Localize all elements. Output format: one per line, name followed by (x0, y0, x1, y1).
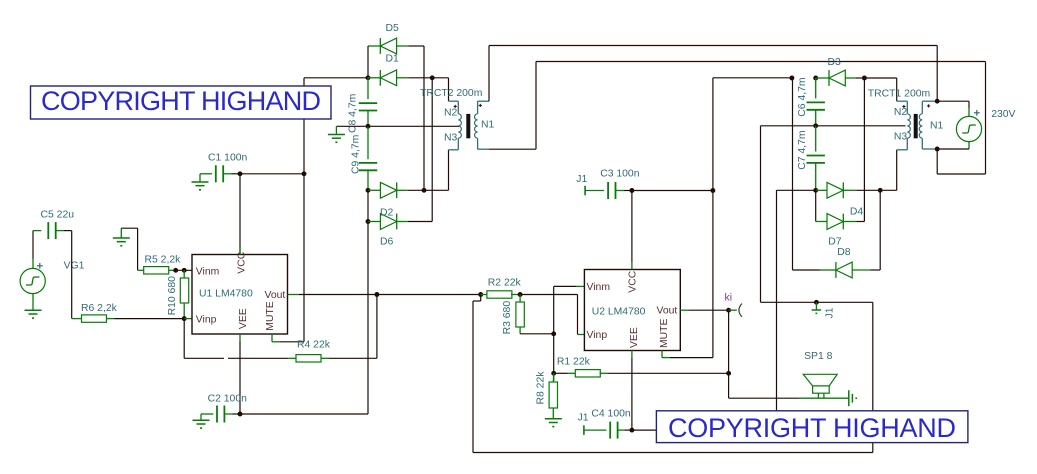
svg-text:COPYRIGHT HIGHAND: COPYRIGHT HIGHAND (668, 413, 956, 443)
wire N1 top to rail1 (488, 46, 490, 102)
node D1 anode line (366, 75, 371, 80)
wire D4/D7 link (815, 190, 817, 221)
node +rail U2 (710, 188, 715, 193)
transformer TRCT2 left winding (458, 114, 461, 138)
wire Vout run (377, 294, 481, 296)
wire R6 to Vinp (115, 318, 185, 320)
svg-text:C5 22u: C5 22u (41, 210, 75, 221)
svg-text:J1: J1 (824, 307, 835, 318)
capacitor C6 (815, 78, 817, 98)
wire D2 out (408, 189, 449, 191)
wire D5 out (408, 45, 424, 47)
wire D7 out (856, 221, 864, 223)
wire bottom rail riser (872, 302, 874, 452)
node C1/VCC U1 (238, 171, 243, 176)
node R1/R8 (551, 371, 556, 376)
wire +rail top U2 (713, 77, 792, 79)
svg-text:C4 100n: C4 100n (591, 409, 631, 420)
diode D3 (816, 77, 829, 79)
node +rail (302, 171, 307, 176)
svg-text:N3: N3 (444, 133, 458, 144)
svg-text:J1: J1 (578, 412, 589, 423)
transformer TRCT1 N2 lead (897, 100, 908, 102)
wire -rail down (367, 222, 369, 415)
wire R4 riser (376, 295, 378, 359)
node Vout U2 (726, 308, 731, 313)
diode D5 (368, 45, 380, 47)
wire rail2 (536, 61, 986, 63)
wire C3 to VCC (624, 190, 632, 192)
capacitor C1 (200, 173, 212, 175)
node J1 ground (814, 300, 819, 305)
wire 230V bottom (968, 141, 970, 149)
svg-text:D6: D6 (380, 237, 394, 248)
copyright box 2 (656, 411, 968, 443)
node N1 top (935, 99, 940, 104)
svg-text:Vout: Vout (657, 306, 678, 317)
wire ground to R5 (121, 227, 137, 229)
wire -rail top U2 (777, 189, 816, 191)
svg-text:C2 100n: C2 100n (208, 393, 248, 404)
transformer TRCT2 N3 lead (457, 138, 459, 150)
wire Vout U1 (288, 294, 299, 296)
wire C4 to VEE node (624, 429, 632, 431)
diode D8 (821, 269, 836, 271)
wire +rail riser (303, 78, 305, 342)
wire Vout U2 down (728, 310, 730, 373)
ground J1 small (815, 302, 817, 310)
terminal J1 C4 (583, 425, 585, 435)
op-amp U2 LM4780 (584, 270, 680, 351)
node R3/Vinm (551, 331, 556, 336)
wire CT TRCT1 (761, 125, 906, 127)
capacitor C5 (33, 230, 41, 232)
transformer TRCT1 N1 top lead (921, 101, 923, 114)
svg-text:U2 LM4780: U2 LM4780 (592, 306, 646, 317)
wire C5 to R6 (64, 230, 72, 232)
phase dot N1 TRCT2 (479, 104, 482, 106)
capacitor C3 (585, 190, 604, 192)
transformer TRCT2 N1 bottom lead (477, 138, 479, 149)
node R5 out (173, 268, 178, 273)
node C6 top (813, 76, 818, 81)
node C7/D4 (813, 188, 818, 193)
svg-text:D7: D7 (828, 237, 842, 248)
ground at R5 (113, 237, 130, 239)
svg-text:D5: D5 (386, 23, 400, 34)
svg-text:R6 2,2k: R6 2,2k (81, 303, 118, 314)
svg-text:D1: D1 (386, 54, 400, 65)
svg-text:COPYRIGHT HIGHAND: COPYRIGHT HIGHAND (41, 86, 321, 116)
svg-text:U1 LM4780: U1 LM4780 (199, 288, 253, 299)
speaker SP1 (800, 397, 849, 399)
wire D4 node down (879, 190, 881, 270)
node C4/VEE U2 (629, 428, 634, 433)
diode D2 (368, 189, 380, 191)
wire -rail U2 (632, 429, 777, 431)
wire VEE stub U1 (239, 334, 241, 342)
resistor R6 (72, 318, 82, 320)
wire D1 out (408, 77, 432, 79)
wire D2 out to N3 (448, 150, 450, 191)
wire +rail top (304, 77, 368, 79)
svg-text:ki: ki (725, 293, 733, 304)
diode D6 (368, 221, 380, 223)
wire CT riser TRCT1 (760, 126, 762, 302)
wire Vinp stub U2 (578, 334, 585, 336)
svg-text:VEE: VEE (238, 308, 249, 329)
wire R4 right (329, 357, 377, 359)
node Vout/R4 (374, 292, 379, 297)
transformer TRCT2 N2 lead (449, 100, 459, 102)
wire to 230V top (937, 100, 969, 102)
wire C1 to VCC node (232, 173, 241, 175)
svg-text:Vinm: Vinm (587, 282, 611, 293)
wire R4 left (183, 319, 185, 359)
wire D5 left leg (367, 46, 369, 78)
transformer TRCT2 core (466, 114, 470, 138)
wire D6 out (408, 221, 432, 223)
wire R1 right (608, 372, 729, 374)
svg-text:MUTE: MUTE (265, 301, 276, 331)
node center tap TRCT2 (366, 124, 371, 129)
wire D4 to N3 (896, 150, 898, 191)
svg-text:R8 22k: R8 22k (536, 371, 547, 405)
wire D8 left riser (792, 78, 794, 270)
node C9/D2 (366, 188, 371, 193)
svg-text:TRCT2 200m: TRCT2 200m (420, 88, 482, 99)
svg-text:N2: N2 (894, 107, 908, 118)
node R2/R3 (518, 292, 523, 297)
svg-text:VCC: VCC (237, 251, 248, 273)
wire N1 bottom (489, 148, 536, 150)
svg-text:N1: N1 (930, 120, 944, 131)
wire return loop (936, 149, 938, 174)
node Vinm U1 (182, 268, 187, 273)
svg-text:R1 22k: R1 22k (557, 357, 591, 368)
transformer TRCT1 right winding (919, 114, 922, 138)
wire C3 node right (632, 190, 713, 192)
svg-text:Vout: Vout (265, 290, 286, 301)
transformer TRCT2 N1 top lead (477, 101, 479, 114)
ground below R8 (545, 418, 562, 420)
svg-text:Vinp: Vinp (587, 330, 608, 341)
svg-text:N1: N1 (481, 120, 495, 131)
diode D7 (816, 221, 827, 223)
svg-text:N2: N2 (444, 108, 458, 119)
diode D1 (368, 77, 380, 79)
capacitor C9 (367, 126, 369, 159)
terminal J1 C3 (584, 186, 586, 196)
wire to speaker (728, 373, 730, 398)
wire Vinm riser U2 (553, 286, 555, 381)
copyright box 1 (31, 86, 332, 119)
resistor R4 (288, 357, 296, 359)
wire R2 to Vinp riser (520, 294, 577, 296)
wire D3 to N2 (864, 77, 896, 79)
wire J1 ground run (761, 301, 873, 303)
wire rail1 (489, 45, 937, 47)
wire bottom rail (473, 452, 873, 454)
wire D3 out (856, 77, 864, 79)
svg-text:Vinm: Vinm (196, 266, 220, 277)
svg-text:N3: N3 (894, 131, 908, 142)
capacitor C8 (367, 78, 369, 99)
svg-text:R4 22k: R4 22k (297, 340, 331, 351)
connector ki (729, 309, 737, 311)
ground at C1 (192, 181, 209, 183)
ground below VG1 (32, 293, 34, 310)
ground at CT TRCT2 (335, 126, 337, 134)
svg-text:TRCT1 200m: TRCT1 200m (868, 89, 930, 100)
node D1 out (430, 75, 435, 80)
wire D1out to N2 (432, 77, 448, 79)
wire D8 right (870, 269, 880, 271)
svg-text:D3: D3 (828, 57, 842, 68)
transformer TRCT1 left winding (907, 114, 910, 138)
svg-text:230V: 230V (991, 109, 1015, 120)
wire VCC stub U1 (239, 174, 241, 255)
node R2 in (478, 292, 483, 297)
node D3 out (862, 76, 867, 81)
svg-text:C1 100n: C1 100n (208, 153, 248, 164)
wire R5 to Vinm (176, 269, 192, 271)
wire D3out to D7 riser (863, 78, 865, 222)
wire R3 to Vinm riser (520, 333, 554, 335)
wire ground to CT (336, 125, 368, 127)
svg-text:SP1 8: SP1 8 (804, 351, 833, 362)
node C3/VCC U2 (629, 188, 634, 193)
wire VCC stub U2 (631, 191, 633, 263)
transformer TRCT1 core (914, 114, 918, 138)
phase dot N2 TRCT1 (902, 106, 905, 108)
node Vinp U1 (182, 316, 187, 321)
wire -rail riser U2 (776, 190, 778, 430)
wire D2 node to D6 (367, 190, 369, 221)
wire Vinm U2 (554, 285, 577, 287)
wire MUTE U1 (271, 334, 273, 342)
wire C1 node to +rail (240, 173, 304, 175)
node R1/speaker (726, 371, 731, 376)
voltage source VG1 (20, 268, 45, 293)
wire D1out to D6 riser (431, 78, 433, 222)
transformer TRCT1 N1 bottom lead (921, 138, 923, 149)
resistor R8 (552, 373, 554, 382)
capacitor C7 (815, 126, 817, 152)
capacitor C2 (201, 413, 213, 415)
svg-text:VCC: VCC (628, 270, 639, 292)
svg-text:Vinp: Vinp (196, 315, 217, 326)
wire rail1 riser (936, 46, 938, 102)
svg-text:C7 4,7m: C7 4,7m (797, 131, 808, 170)
diode D4 (816, 189, 827, 191)
svg-text:VEE: VEE (629, 327, 640, 348)
node D6 anode (366, 219, 371, 224)
resistor R2 (481, 294, 488, 296)
svg-text:D4: D4 (850, 207, 864, 218)
svg-text:R3 680: R3 680 (502, 301, 513, 335)
svg-text:R2 22k: R2 22k (488, 277, 522, 288)
wire D4 out (856, 189, 897, 191)
transformer TRCT1 N3 lead (906, 138, 908, 150)
phase dot N2 (454, 105, 457, 107)
node D4 out (878, 188, 883, 193)
resistor R1 (554, 372, 568, 374)
node D2/D5 (422, 188, 427, 193)
op-amp U1 LM4780 (192, 255, 288, 335)
node center tap TRCT1 (813, 123, 818, 128)
wire +rail riser U2 (712, 78, 714, 358)
phase dot N1 TRCT1 (927, 105, 930, 107)
svg-text:VG1: VG1 (64, 260, 85, 271)
transformer TRCT2 right winding (475, 114, 478, 138)
node N1 bottom (935, 147, 940, 152)
wire Vinp stub (184, 318, 192, 320)
node D3 line left (789, 76, 794, 81)
wire D8 left (793, 269, 821, 271)
svg-text:J1: J1 (576, 174, 587, 185)
wire Vout loop down (480, 295, 482, 302)
ground at C2 (193, 419, 210, 421)
wire MUTE U2 (661, 351, 663, 358)
resistor R10 (183, 270, 185, 278)
voltage source 230V (956, 116, 981, 141)
svg-text:MUTE: MUTE (659, 318, 670, 348)
svg-text:R5 2,2k: R5 2,2k (145, 255, 182, 266)
svg-text:D8: D8 (837, 247, 851, 258)
node C2/VEE (238, 412, 243, 417)
svg-text:R10 680: R10 680 (167, 276, 178, 316)
wire CT to winding (368, 125, 459, 127)
wire Vout U2 (680, 309, 688, 311)
svg-text:C8 4,7m: C8 4,7m (348, 94, 359, 133)
capacitor C4 (584, 429, 607, 431)
wire VEE stub U2 (631, 351, 633, 359)
svg-text:C3 100n: C3 100n (600, 169, 640, 180)
svg-text:C6 4,7m: C6 4,7m (797, 77, 808, 116)
wire VG1 top to C5 (32, 231, 34, 259)
wire VEE to -rail (240, 413, 368, 415)
resistor R3 (519, 295, 521, 302)
resistor R5 (138, 269, 144, 271)
svg-text:C9 4,7m: C9 4,7m (351, 135, 362, 174)
ground right of speaker (848, 390, 850, 406)
wire C2 to VEE node (233, 413, 241, 415)
